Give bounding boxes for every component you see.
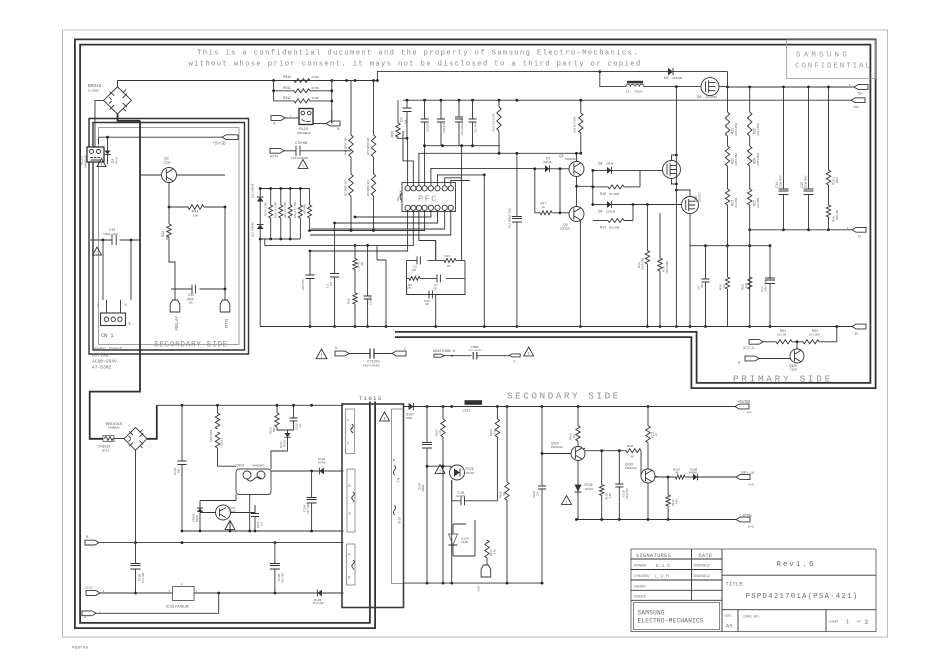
opto PC101 <box>216 505 231 520</box>
resistor R13 <box>646 205 648 251</box>
bridge BRD101S <box>124 428 147 451</box>
svg-text:R21: R21 <box>731 128 735 134</box>
svg-text:Q3: Q3 <box>563 223 568 227</box>
compensation box outline <box>407 260 466 294</box>
svg-text:102: 102 <box>300 423 302 428</box>
svg-text:R16: R16 <box>445 254 451 258</box>
wire D7 anode down <box>534 169 536 213</box>
warning triangle (PC35) <box>562 496 572 505</box>
svg-text:SAMSUNG: SAMSUNG <box>796 52 850 60</box>
capacitor C108 <box>452 480 461 501</box>
transformer warning triangle <box>380 412 390 421</box>
resistor R73 <box>373 81 375 136</box>
resistor R24 <box>727 246 729 277</box>
wire bridge bottom heavy <box>118 114 141 121</box>
svg-text:R101 120K: R101 120K <box>210 429 213 442</box>
svg-text:R112: R112 <box>651 431 655 438</box>
svg-text:2: 2 <box>181 583 183 586</box>
wire PFC pin16 down <box>310 210 408 275</box>
opto PC35 led <box>575 485 582 493</box>
svg-text:1uF 50V: 1uF 50V <box>456 495 465 498</box>
svg-text:D6: D6 <box>697 95 701 99</box>
terminal D <box>852 227 866 232</box>
svg-text:SA60380D: SA60380D <box>252 464 265 468</box>
svg-text:100K 0.25W: 100K 0.25W <box>758 123 760 136</box>
svg-text:R14: R14 <box>662 266 666 272</box>
svg-text:PFC: PFC <box>418 194 438 204</box>
wire Q103 base <box>640 451 643 476</box>
svg-text:30: 30 <box>542 205 545 209</box>
transformer secondary winding <box>392 409 404 584</box>
svg-text:R17: R17 <box>541 202 547 206</box>
svg-text:02B4: 02B4 <box>406 416 413 420</box>
resistor R43 row <box>169 206 225 208</box>
right bank vertical <box>331 81 333 124</box>
svg-text:DWG. NO.: DWG. NO. <box>744 615 760 619</box>
svg-text:SIZE: SIZE <box>725 614 732 618</box>
wire PFC pin1 up <box>407 138 409 185</box>
svg-text:D108: D108 <box>690 467 698 471</box>
svg-text:DATE: DATE <box>699 553 713 559</box>
PFC pins bottom <box>405 205 410 210</box>
svg-text:B: B <box>337 127 340 131</box>
wire Q3 emitter down <box>579 220 581 327</box>
svg-text:C12 680uF 25V: C12 680uF 25V <box>508 208 512 228</box>
isolation barrier and frame (white core) <box>78 42 874 626</box>
svg-text:R111: R111 <box>627 444 634 448</box>
svg-text:R108: R108 <box>499 491 503 498</box>
svg-text:2SK2520: 2SK2520 <box>560 227 571 230</box>
svg-text:R28-1: R28-1 <box>832 176 836 185</box>
svg-text:D107: D107 <box>406 412 414 416</box>
wire Q103 emitter <box>647 483 649 520</box>
isolation barrier and frame (outer thick run) <box>78 42 874 626</box>
capacitor C109 <box>541 407 543 487</box>
svg-text:R13: R13 <box>637 262 641 268</box>
resistor R101 <box>217 405 219 413</box>
wire PFC pin2 up <box>403 131 413 186</box>
terminal B- (barrier) <box>335 351 349 356</box>
svg-text:R18: R18 <box>600 192 606 196</box>
sense resistor R51-3 <box>299 189 301 206</box>
warning triangle (barrier right) <box>524 347 534 356</box>
svg-text:R52 680: R52 680 <box>302 204 306 214</box>
svg-text:C105: C105 <box>138 573 142 581</box>
svg-text:RATING: RATING <box>92 353 109 359</box>
svg-text:R25: R25 <box>753 128 757 134</box>
resistor R27 <box>749 166 751 189</box>
sense bank ground drop <box>259 239 261 327</box>
svg-text:RL2S: RL2S <box>299 127 309 131</box>
diode D107 <box>409 403 414 410</box>
svg-text:C7: C7 <box>434 283 438 287</box>
svg-text:D5: D5 <box>664 76 668 80</box>
terminal RTN flag <box>220 300 230 312</box>
svg-text:+5VSB: +5VSB <box>737 399 750 404</box>
wire feedback row y245 <box>690 245 770 247</box>
resistor R113 <box>667 477 669 495</box>
terminal A flag (bottom) <box>82 611 96 616</box>
svg-text:IN4148: IN4148 <box>689 472 697 475</box>
svg-text:C30: C30 <box>188 293 194 297</box>
resistor R46 <box>354 270 356 294</box>
svg-text:47uF 35V: 47uF 35V <box>142 572 145 583</box>
transformer winding 6-3 <box>347 469 355 532</box>
svg-text:PC25: PC25 <box>466 467 474 471</box>
wire relay local bus <box>576 519 668 521</box>
wire rail top jog <box>377 72 727 81</box>
wire Q56 source down <box>689 214 691 327</box>
wire Q102 emitter <box>577 461 579 482</box>
svg-text:BY27-200: BY27-200 <box>313 602 324 605</box>
svg-text:C21 10uF 50V: C21 10uF 50V <box>460 117 464 135</box>
capacitor C107 <box>426 407 428 444</box>
sense bank top bus <box>260 188 309 190</box>
warning triangle under C19 <box>93 247 102 255</box>
svg-text:C20: C20 <box>424 299 430 303</box>
svg-text:L: L <box>97 303 99 307</box>
svg-text:2871-CAP,4D: 2871-CAP,4D <box>469 349 483 352</box>
svg-text:RELAY: RELAY <box>174 316 179 330</box>
svg-text:B-: B- <box>86 535 89 539</box>
capacitor C6 <box>424 100 426 119</box>
wire PFC pin10 down <box>311 210 445 229</box>
svg-text:360: 360 <box>574 433 576 438</box>
capacitor C10 <box>309 251 311 275</box>
resistor R17 <box>540 211 552 215</box>
svg-text:330uF 450V: 330uF 450V <box>781 175 783 188</box>
page border frame <box>63 30 888 637</box>
svg-text:330uF 450V: 330uF 450V <box>806 175 808 188</box>
svg-text:D3SBA60: D3SBA60 <box>108 426 120 430</box>
terminal B- (right) <box>852 324 866 329</box>
svg-text:Rev1.6: Rev1.6 <box>776 561 815 569</box>
sense resistor R51 <box>270 189 272 206</box>
capacitor C15 <box>808 87 810 189</box>
svg-text:5D-13: 5D-13 <box>102 448 110 452</box>
wire Q2 collector row <box>140 174 225 176</box>
svg-text:B-: B- <box>738 360 741 364</box>
svg-text:6: 6 <box>349 484 351 488</box>
CN1 drop wires <box>103 240 131 313</box>
svg-text:AC90~264V: AC90~264V <box>92 359 117 365</box>
svg-text:without whose prior consent. i: without whose prior consent. it mays not… <box>188 61 641 69</box>
svg-text:D: D <box>858 235 861 239</box>
resistor R111 <box>626 449 641 453</box>
resistor R101-1 <box>215 432 219 448</box>
svg-text:R110: R110 <box>605 493 609 500</box>
samsung electro-mechanics cell <box>634 603 720 630</box>
svg-text:KSP2222A: KSP2222A <box>551 446 563 449</box>
diode D101 <box>284 433 290 437</box>
svg-text:C8: C8 <box>697 286 701 290</box>
sense bank output wire <box>310 230 421 232</box>
svg-text:0-1R: 0-1R <box>745 283 748 288</box>
svg-text:PRIMARY SIDE: PRIMARY SIDE <box>733 373 833 384</box>
svg-text:D102: D102 <box>318 457 326 461</box>
svg-text:20K 0.25W: 20K 0.25W <box>642 257 645 270</box>
warning triangle (PC25) <box>435 465 445 474</box>
svg-text:Q102: Q102 <box>551 442 559 446</box>
bridge BR01S <box>104 87 132 114</box>
svg-text:6.8uF 50V: 6.8uF 50V <box>627 488 629 499</box>
warning triangle under D3 <box>97 159 106 167</box>
resistor R18 row <box>593 186 608 188</box>
bottom row lines <box>722 610 876 632</box>
svg-text:CY101S: CY101S <box>367 359 380 363</box>
svg-text:D7: D7 <box>546 156 550 160</box>
svg-text:R512: R512 <box>283 96 291 100</box>
resistor R511 <box>274 90 332 92</box>
svg-text:1: 1 <box>846 620 849 626</box>
resistor R30 <box>397 100 399 123</box>
relay RL1S <box>87 147 104 162</box>
wire Q2 emitter down <box>168 183 170 200</box>
svg-text:R44 380K 3W: R44 380K 3W <box>344 137 348 155</box>
resistor R51b <box>763 341 776 343</box>
svg-text:POWER INPUT: POWER INPUT <box>92 347 123 353</box>
svg-text:1000uF: 1000uF <box>422 483 425 492</box>
transformer T101S outline <box>342 404 404 608</box>
diode D102 <box>319 468 324 475</box>
wire long vertical x676 <box>675 87 677 327</box>
svg-text:!: ! <box>566 499 567 505</box>
resistor R107 <box>485 540 489 558</box>
capacitor C70+SB <box>296 146 300 156</box>
svg-text:C10 475: C10 475 <box>301 279 305 290</box>
svg-text:100uF 25V: 100uF 25V <box>765 280 768 292</box>
svg-text:ISSUED: ISSUED <box>634 595 647 599</box>
capacitor C30 row <box>171 288 225 290</box>
svg-text:465: 465 <box>178 468 181 473</box>
svg-text:1N4148: 1N4148 <box>606 210 616 214</box>
resistor R40 <box>354 245 356 258</box>
wire RTN row <box>668 519 736 521</box>
svg-text:C104: C104 <box>303 504 307 512</box>
svg-text:BRD101S: BRD101S <box>106 422 123 426</box>
diode D12 <box>257 225 264 230</box>
capacitor C14 <box>783 87 785 189</box>
svg-text:474(X)-CAP): 474(X)-CAP) <box>103 232 118 236</box>
svg-text:KSP2SD4: KSP2SD4 <box>565 158 576 161</box>
resistor R6 <box>409 276 420 280</box>
resistor R31 <box>498 100 500 107</box>
svg-text:R51-2 4.7 5W: R51-2 4.7 5W <box>283 201 287 218</box>
svg-text:+CF4S60: +CF4S60 <box>705 95 717 99</box>
svg-text:TH101S: TH101S <box>98 445 111 449</box>
capacitor C110 <box>618 451 620 484</box>
svg-text:C109: C109 <box>532 491 536 498</box>
resistor R32 <box>580 100 582 113</box>
svg-text:9.1K 1W: 9.1K 1W <box>777 333 787 336</box>
capacitor C103 <box>254 505 256 514</box>
svg-text:RG1-14-2 5W: RG1-14-2 5W <box>274 201 278 218</box>
svg-text:HEATSINK-6: HEATSINK-6 <box>433 350 455 354</box>
capacitor C20 <box>429 291 432 299</box>
capacitor C101 <box>181 405 183 461</box>
svg-text:TLP421: TLP421 <box>585 488 594 491</box>
svg-text:RTN: RTN <box>224 319 229 328</box>
svg-text:222: 222 <box>412 269 417 272</box>
svg-text:ELECTRO-MECHANICS: ELECTRO-MECHANICS <box>638 618 704 625</box>
terminal +5VSB (secondary) <box>735 404 749 409</box>
wire bridge out right <box>147 405 157 439</box>
svg-text:474: 474 <box>330 281 333 286</box>
svg-text:184: 184 <box>403 119 407 124</box>
svg-text:KA431: KA431 <box>461 541 469 544</box>
svg-text:1K 0.25W: 1K 0.25W <box>736 197 738 208</box>
svg-text:700uH: 700uH <box>634 89 642 93</box>
wire PFC pin14 down <box>419 210 436 260</box>
svg-text:04: 04 <box>128 322 132 325</box>
svg-text:R106: R106 <box>489 429 493 436</box>
wire +5VSB row <box>99 137 223 144</box>
capacitor CY101S <box>349 353 370 355</box>
svg-text:390: 390 <box>165 235 169 240</box>
capacitor C16 <box>440 100 442 119</box>
transistor Q320 <box>790 349 804 363</box>
svg-text:C13: C13 <box>760 286 764 292</box>
svg-text:R5 380K 3W: R5 380K 3W <box>344 180 348 196</box>
wire vertical x484 <box>483 175 485 327</box>
svg-text:30 0.25W: 30 0.25W <box>609 227 620 230</box>
svg-text:PC35: PC35 <box>585 483 593 487</box>
svg-text:R53: R53 <box>812 329 818 333</box>
svg-text:100K 0.25W: 100K 0.25W <box>736 123 738 136</box>
wire vertical x386 <box>377 245 386 326</box>
svg-text:R105: R105 <box>435 429 439 436</box>
svg-text:C: C <box>514 360 517 364</box>
svg-text:OF: OF <box>857 620 861 624</box>
terminal B flag <box>313 123 326 125</box>
svg-text:104: 104 <box>538 491 540 496</box>
svg-text:BY?99: BY?99 <box>318 461 326 464</box>
svg-text:BY399: BY399 <box>285 439 287 447</box>
svg-text:L.J.H: L.J.H <box>655 573 669 579</box>
svg-text:PSPD421701A(PSA-421): PSPD421701A(PSA-421) <box>746 593 859 601</box>
svg-text:5-10: 5-10 <box>398 517 402 524</box>
svg-text:SH-RELAY: SH-RELAY <box>84 155 88 168</box>
capacitor C11 <box>472 100 474 119</box>
wire R43 junctions <box>168 206 171 209</box>
svg-text:R51: R51 <box>780 329 786 333</box>
svg-text:8.2K: 8.2K <box>610 493 612 498</box>
svg-text:4: 4 <box>348 553 350 557</box>
wire PFC pin3 up <box>419 153 581 185</box>
wire R53 up to rail <box>836 327 838 342</box>
svg-text:SAMSUNG: SAMSUNG <box>638 610 665 617</box>
svg-text:390K 3W: 390K 3W <box>836 209 839 220</box>
svg-text:BY133: BY133 <box>116 156 119 164</box>
svg-text:R24: R24 <box>719 284 723 290</box>
svg-text:R23: R23 <box>731 200 735 206</box>
svg-text:1K 0.25W: 1K 0.25W <box>809 333 820 336</box>
svg-text:R101-1: R101-1 <box>221 437 224 446</box>
svg-text:!: ! <box>528 351 529 357</box>
svg-text:D8: D8 <box>598 162 602 166</box>
svg-text:KSP2222A: KSP2222A <box>625 467 637 470</box>
wire C40 row <box>265 239 368 245</box>
PFC IC body <box>402 183 456 212</box>
capacitor C750S <box>473 352 477 359</box>
title block outer <box>631 549 876 632</box>
svg-text:T101S: T101S <box>359 395 382 402</box>
wire standby mid rail <box>182 530 344 532</box>
mosfet D6 <box>701 78 719 96</box>
resistor R112 <box>647 407 649 426</box>
svg-text:D40: D40 <box>357 262 361 268</box>
svg-text:R102: R102 <box>269 427 273 434</box>
svg-text:SIGNATURES: SIGNATURES <box>636 553 671 559</box>
svg-text:2ND-RELAY: 2ND-RELAY <box>297 131 312 135</box>
svg-text:100K 0.25W: 100K 0.25W <box>666 260 669 274</box>
svg-text:BR01S: BR01S <box>88 83 101 88</box>
terminal C (barrier left) <box>392 351 406 356</box>
inductor L1 <box>626 84 644 86</box>
wire Q4 Q3 junction col <box>576 177 578 207</box>
wire opto row <box>200 495 236 501</box>
svg-text:D9: D9 <box>598 210 602 214</box>
resistor R106 <box>496 407 498 420</box>
capacitor C13 <box>769 246 771 279</box>
svg-text:RTN: RTN <box>270 155 278 159</box>
wire PFC pin6 up <box>438 175 485 186</box>
svg-text:30 0.25W: 30 0.25W <box>609 193 620 196</box>
resistor R9 <box>373 157 375 174</box>
svg-text:2002/08/12: 2002/08/12 <box>693 564 710 568</box>
sense resistor RG1-1 <box>280 189 282 206</box>
wire Q102 base feed <box>542 453 571 455</box>
wire secondary top rail <box>404 406 736 408</box>
resistor R26 <box>749 136 751 146</box>
svg-text:ENGRG: ENGRG <box>634 584 646 588</box>
diode D7 <box>535 168 545 170</box>
capacitor C5b <box>367 245 369 296</box>
resistor R23 <box>727 166 729 189</box>
svg-text:R31 150 0.5W: R31 150 0.5W <box>492 113 496 131</box>
svg-text:R9 680K 3W: R9 680K 3W <box>366 180 370 196</box>
wire PFC pin11 down <box>335 210 438 223</box>
svg-text:B+: B+ <box>858 91 864 96</box>
svg-text:100K 0.25W: 100K 0.25W <box>758 153 760 166</box>
svg-text:!: ! <box>101 162 102 167</box>
wire rail y80.5 <box>118 80 378 82</box>
thermistor TH101S <box>103 436 114 442</box>
svg-text:C101: C101 <box>173 467 177 475</box>
diode D9 row <box>593 204 607 206</box>
resistor R110 <box>601 451 603 485</box>
svg-text:C4: C4 <box>400 118 404 122</box>
diode D103 <box>317 590 322 597</box>
sense bank bottom bus <box>260 238 300 240</box>
svg-text:20 5W: 20 5W <box>312 75 320 79</box>
heatsink flag <box>434 354 444 357</box>
svg-text:47uF 35V: 47uF 35V <box>281 572 284 583</box>
svg-text:A: A <box>273 122 276 126</box>
resistor R25 <box>749 87 751 112</box>
resistor R28-1 <box>828 87 830 170</box>
capacitor C104 <box>311 471 313 498</box>
resistor R14 <box>659 213 661 258</box>
left relay box thick border <box>91 121 247 353</box>
svg-text:390K: 390K <box>836 177 839 183</box>
svg-text:Q103: Q103 <box>625 463 633 467</box>
svg-text:2: 2 <box>347 441 349 445</box>
svg-text:C103: C103 <box>256 521 260 528</box>
svg-text:47uF 50V: 47uF 50V <box>307 503 310 514</box>
transformer winding 4-5 <box>347 544 356 585</box>
wire PFC pin4 up <box>425 146 500 186</box>
